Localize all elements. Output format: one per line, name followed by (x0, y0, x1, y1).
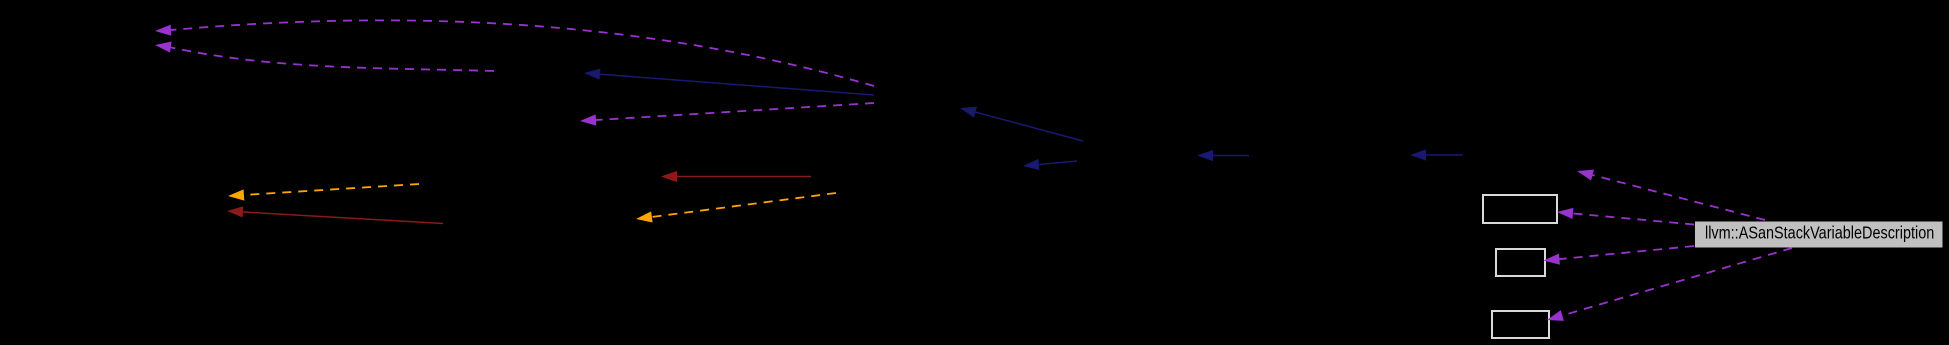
arrowhead of BL5 (1410, 149, 1426, 160)
arrowhead of OR2 (228, 189, 244, 200)
edge P4: purple dashed from main node top to upper arrowhead (1589, 174, 1765, 220)
edge P6: purple dashed from main node to box B2 (1556, 246, 1695, 260)
edge OR2: orange dashed template relation (left) (240, 184, 419, 195)
edge P5: purple dashed from main node to box B1 (1569, 213, 1694, 224)
arrowhead of DR2 (227, 206, 243, 217)
arrowhead of BL2 (960, 107, 977, 118)
arrowhead of BL3 (1023, 159, 1039, 170)
edge P1: long purple dashed spline to upper-left arrowhead (167, 20, 874, 86)
edge BL2: blue diagonal arrow to hub (972, 111, 1083, 141)
edge P3: purple dashed line from hub to middle arrowhead (592, 103, 874, 120)
edge P2: second purple dashed spline to left arrowhead (167, 47, 494, 71)
edge P7: purple dashed from main node bottom to box B3 (1559, 248, 1793, 317)
edge DR2: dark red private inheritance arrow (left) (239, 212, 443, 224)
arrowhead of BL4 (1197, 150, 1213, 161)
arrowhead of P3 (580, 114, 596, 125)
arrowhead of BL1 (584, 69, 600, 80)
arrowhead of P2 (155, 42, 172, 53)
arrowhead of P4 (1577, 170, 1594, 181)
box B1 (empty node, light border) (1483, 195, 1557, 223)
box B3 (empty node, light border) (1492, 311, 1549, 338)
svg-text:llvm::ASanStackVariableDescrip: llvm::ASanStackVariableDescription (1705, 224, 1934, 242)
main node llvm::ASanStackVariableDescription (1695, 222, 1943, 248)
edge BL4: blue horizontal arrow (1209, 155, 1249, 157)
edge DR1: dark red private inheritance arrow (middle) (673, 176, 811, 178)
edge BL3: short blue arrow (1035, 161, 1077, 165)
box B2 (empty node, light border) (1496, 249, 1545, 276)
arrowhead of P7 (1547, 310, 1564, 321)
arrowhead of DR1 (661, 171, 677, 182)
arrowhead of P6 (1544, 254, 1560, 265)
edge BL5: blue horizontal arrow right (1422, 154, 1463, 156)
arrowhead of P1 (155, 25, 171, 36)
edge OR1: orange dashed template relation (middle) (648, 193, 836, 218)
arrowhead of OR1 (636, 211, 653, 222)
edge BL1: blue inheritance arrow to node N2 (596, 74, 874, 95)
arrowhead of P5 (1557, 208, 1573, 219)
